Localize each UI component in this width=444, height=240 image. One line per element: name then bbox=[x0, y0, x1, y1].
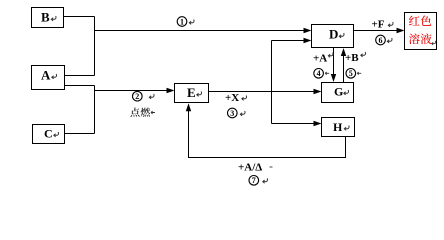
label ignite (dian ran) bbox=[130, 108, 139, 117]
svg-text:3: 3 bbox=[230, 109, 234, 118]
box C bbox=[33, 125, 65, 144]
wire C to junction bbox=[64, 133, 95, 135]
arrowhead into H bbox=[314, 121, 322, 126]
arrowhead up into E bbox=[186, 103, 191, 111]
box B bbox=[32, 8, 64, 28]
arrowhead into red box bbox=[397, 28, 405, 33]
wire E to G bbox=[209, 91, 315, 93]
wire feedback H to E bbox=[189, 111, 346, 158]
arrowhead into D (lower) bbox=[304, 38, 312, 43]
svg-text:1: 1 bbox=[180, 17, 184, 26]
label circled 3 bbox=[228, 108, 238, 118]
svg-text:+X: +X bbox=[225, 92, 239, 104]
svg-text:+A: +A bbox=[313, 53, 327, 65]
label circled 2 bbox=[133, 91, 143, 101]
wire G up to D bbox=[343, 55, 345, 83]
label red solution line 2 (rong ye) bbox=[409, 33, 420, 44]
svg-text:+A/Δ: +A/Δ bbox=[238, 162, 262, 174]
svg-text:C: C bbox=[44, 127, 53, 141]
svg-text:H: H bbox=[333, 120, 343, 134]
wire D down to G bbox=[333, 48, 335, 76]
arrowhead into G (+X line) bbox=[314, 89, 322, 94]
label circled 5 bbox=[346, 69, 356, 79]
box H bbox=[322, 118, 355, 137]
wire branch 2 to E bbox=[95, 90, 168, 92]
svg-text:7: 7 bbox=[252, 176, 256, 185]
arrowhead up into D bbox=[341, 48, 346, 56]
label red solution line 1 (hong se) bbox=[409, 16, 420, 26]
svg-text:+F: +F bbox=[372, 19, 385, 31]
svg-text:D: D bbox=[329, 27, 338, 42]
arrowhead into D (line 1) bbox=[304, 28, 312, 33]
wire A lower to junction bbox=[65, 85, 95, 87]
svg-text:E: E bbox=[187, 85, 196, 100]
wire branch 1 to D bbox=[95, 30, 305, 32]
wire branch vertical to D and H bbox=[271, 41, 273, 124]
box E bbox=[175, 84, 209, 103]
wire A upper to junction bbox=[65, 75, 95, 77]
svg-text:G: G bbox=[334, 85, 343, 99]
box D bbox=[312, 25, 354, 48]
svg-text:4: 4 bbox=[317, 69, 321, 78]
wire branch to D lower bbox=[272, 40, 305, 42]
svg-text:2: 2 bbox=[135, 92, 139, 101]
svg-text:6: 6 bbox=[379, 36, 383, 45]
box red solution bbox=[405, 13, 437, 50]
svg-text:B: B bbox=[41, 10, 50, 25]
box G bbox=[322, 83, 354, 103]
wire vertical junction 2 bbox=[94, 86, 96, 134]
wire D to red solution box bbox=[354, 30, 398, 32]
label circled 4 bbox=[314, 69, 324, 79]
arrowhead into E (line 2) bbox=[167, 88, 175, 93]
label circled 7 bbox=[249, 176, 259, 186]
wire branch to H bbox=[272, 123, 315, 125]
svg-text:A: A bbox=[41, 68, 51, 83]
svg-text:5: 5 bbox=[349, 69, 353, 78]
wire B to junction bbox=[64, 16, 95, 18]
wire vertical junction 1 bbox=[94, 17, 96, 76]
arrowhead down into G bbox=[331, 74, 336, 82]
box A bbox=[32, 66, 65, 90]
label circled 6 bbox=[376, 35, 386, 45]
svg-text:+B: +B bbox=[345, 52, 359, 64]
label circled 1 bbox=[177, 17, 187, 27]
